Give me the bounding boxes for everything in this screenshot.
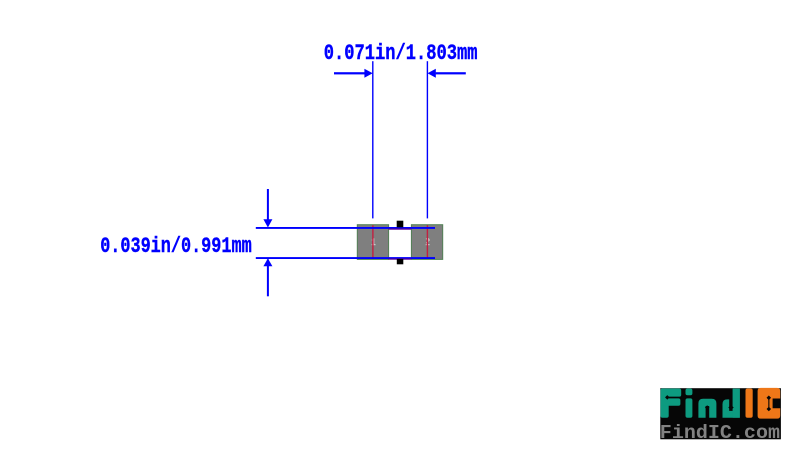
- dimension arrow right (points left): [436, 72, 466, 74]
- pad number 1 (drawn glyph): [372, 238, 376, 245]
- extension line left (x=372.8): [372, 61, 373, 218]
- vertical dimension arrow top (points down): [267, 189, 269, 221]
- logo F via dot + trace: [667, 397, 682, 398]
- svg-text:0.039in/0.991mm: 0.039in/0.991mm: [100, 234, 252, 259]
- logo letter C (orange): [758, 388, 781, 419]
- svg-text:FindIC.com: FindIC.com: [660, 422, 780, 444]
- logo d via dot: [728, 405, 733, 410]
- logo C via dots + trace: [768, 398, 769, 410]
- logo n via dot + trace: [707, 407, 708, 418]
- logo letter F (teal): [661, 389, 682, 418]
- pad 2 centerline (red): [427, 225, 428, 259]
- pad 1 (left, gray with green outline): [357, 225, 388, 260]
- vertical dimension arrow bottom (points up): [267, 260, 269, 297]
- extension line top (y=227.9): [256, 227, 435, 229]
- logo letter i (teal): [686, 389, 693, 396]
- logo letter I (orange): [746, 389, 753, 418]
- body center mark bottom (black square): [397, 259, 404, 264]
- pad 2 (right, gray with green outline): [411, 225, 442, 260]
- pad number 2 (drawn glyph): [426, 238, 430, 245]
- logo letter n (teal): [698, 399, 716, 418]
- extension line right (x=427.4): [427, 61, 428, 218]
- dimension arrow left (points right): [334, 72, 365, 74]
- body outline top (purple, between pads): [389, 228, 412, 229]
- pad 1 centerline (red): [372, 225, 373, 259]
- logo background box: [660, 388, 781, 439]
- logo letter d (teal): [723, 389, 740, 418]
- body outline bottom (purple, between pads): [389, 258, 412, 259]
- body center mark top (black square): [397, 221, 404, 228]
- svg-text:0.071in/1.803mm: 0.071in/1.803mm: [324, 41, 478, 66]
- extension line bottom (y=258): [256, 257, 435, 259]
